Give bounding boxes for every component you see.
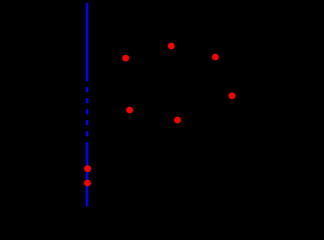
node 7: red dot on line	[84, 165, 91, 172]
node 5: red dot	[126, 107, 133, 114]
wire: blue vertical line, middle dashed segment	[86, 79, 88, 143]
wire: blue vertical line, bottom solid segment	[86, 143, 88, 207]
node 3: red dot	[212, 54, 219, 61]
node 2: red dot	[168, 43, 175, 50]
node 1: red dot	[122, 55, 129, 62]
node 4: red dot	[229, 92, 236, 99]
node 8: red dot on line	[84, 180, 91, 187]
node 6: red dot	[174, 117, 181, 124]
wire: blue vertical line, top solid segment	[86, 3, 88, 79]
